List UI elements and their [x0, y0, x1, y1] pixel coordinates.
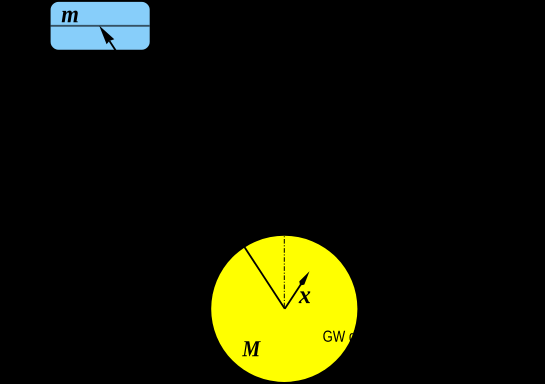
x displacement arrow shaft: [285, 285, 301, 309]
x arrow head: [299, 271, 309, 285]
label M: [242, 341, 261, 356]
label m: [62, 11, 78, 23]
GW detector text (partially hidden over black): [323, 330, 396, 342]
mass M circle (yellow): [211, 236, 357, 382]
label x: [299, 291, 311, 303]
divider line through mass box: [51, 25, 150, 27]
mass m box (light blue rounded rectangle): [51, 2, 150, 50]
cursor arrow head: [99, 26, 114, 45]
radius line from circle edge to center: [245, 247, 285, 308]
dash-dot vertical reference line: [283, 236, 285, 308]
cursor arrow shaft into mass box: [110, 41, 122, 59]
